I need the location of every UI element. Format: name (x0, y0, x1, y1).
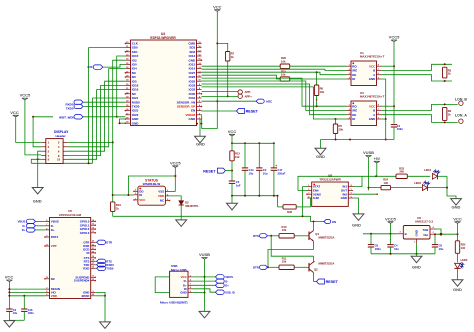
op-amp U1 MAX1487ECSA+T (347, 51, 385, 86)
resistor R19 (111, 202, 115, 212)
node RESET tag q2 (317, 279, 325, 284)
wire Q2 collector to reset (314, 281, 317, 283)
svg-text:GPIO.3: GPIO.3 (80, 231, 90, 235)
svg-text:GND: GND (452, 205, 461, 210)
svg-text:GND: GND (369, 77, 375, 81)
wire L7 DE U3 (202, 84, 347, 115)
svg-text:APP-: APP- (245, 90, 252, 94)
svg-text:10k: 10k (339, 128, 344, 132)
svg-text:VBUS: VBUS (51, 220, 59, 224)
svg-text:RST#: RST# (51, 235, 59, 239)
wire IO2 col to R19 (113, 60, 126, 202)
connector DISPLAY Header (41, 130, 69, 163)
svg-text:1k: 1k (231, 55, 234, 59)
capacitor C14 (244, 143, 246, 168)
svg-text:LED4: LED4 (424, 168, 431, 172)
node D- tag usb (215, 279, 224, 283)
wire VIO (9, 291, 45, 293)
svg-text:MAX1487ECSA+T: MAX1487ECSA+T (360, 54, 385, 58)
svg-text:D2: D2 (185, 200, 189, 204)
svg-text:10u: 10u (394, 247, 399, 251)
wire GND U8 (353, 198, 359, 214)
LED LED4 (407, 175, 430, 177)
svg-text:VCC: VCC (5, 275, 14, 280)
wire IN2 (353, 193, 377, 195)
svg-text:GND: GND (414, 230, 418, 236)
wire DTR to R11 (268, 266, 280, 268)
diode D2 (179, 201, 184, 205)
op-amp STATUS WS2812B-W (134, 179, 170, 206)
wire RTS to R10 (268, 235, 280, 237)
node USB_ID tag (215, 290, 224, 294)
capacitor C8 (370, 234, 372, 245)
resistor R22 (455, 241, 459, 254)
wire R19 bottom to ON tag (113, 216, 324, 221)
wire U4 left GND loop (120, 119, 126, 123)
node DTR tag cp (95, 241, 97, 243)
wire U1 B (381, 64, 452, 70)
svg-text:ADC: ADC (266, 100, 273, 104)
wire usb vcc (193, 276, 216, 278)
svg-text:DTR: DTR (253, 266, 260, 270)
svg-text:10k: 10k (235, 155, 240, 159)
svg-text:WS2812B-W: WS2812B-W (143, 182, 161, 186)
capacitor C17 (273, 143, 275, 168)
svg-text:10u: 10u (13, 311, 18, 315)
wire header pin5 to gnd (38, 151, 42, 187)
svg-text:10k: 10k (281, 73, 286, 77)
svg-text:ESP32-WROVER: ESP32-WROVER (150, 36, 176, 40)
wire Q1 emitter cross (268, 250, 314, 268)
svg-text:10k: 10k (281, 60, 286, 64)
svg-text:Header: Header (56, 134, 67, 138)
svg-text:VCC: VCC (453, 216, 462, 221)
svg-text:GND: GND (352, 223, 361, 228)
wire usb dp (193, 284, 216, 286)
wire gnd rail right (321, 139, 395, 141)
wire L6 /RE U3 (202, 81, 347, 110)
svg-text:1k: 1k (116, 207, 119, 211)
resistor R5 (335, 119, 337, 124)
transistor Q1 (308, 232, 310, 241)
wire U3 GND (381, 118, 386, 120)
node ON tag (324, 219, 331, 223)
wire STAT drop (303, 187, 308, 217)
svg-text:LED2: LED2 (414, 181, 421, 185)
wire ams gnd (416, 243, 418, 256)
svg-text:SM4007PL: SM4007PL (185, 204, 199, 208)
svg-text:RESET: RESET (246, 110, 259, 114)
ground usb (199, 311, 210, 318)
wire IO18 to header pin8 (68, 85, 126, 155)
svg-text:ON: ON (332, 220, 336, 224)
resistor R12 (231, 143, 233, 151)
svg-text:APP+: APP+ (245, 95, 253, 99)
svg-text:MAX1487ECSA+T: MAX1487ECSA+T (360, 94, 385, 98)
svg-text:TXD0: TXD0 (66, 107, 74, 111)
svg-text:VBUS: VBUS (18, 220, 26, 224)
wire ams in rail (363, 233, 397, 235)
wire cp GND right (95, 292, 105, 322)
wire U3 VCC (381, 105, 394, 107)
op-amp U5 CP2104-F03-GM (45, 209, 95, 298)
transistor Q2 (308, 263, 310, 272)
svg-text:Micro USB-B(SMT): Micro USB-B(SMT) (160, 301, 188, 305)
svg-text:D+: D+ (225, 284, 229, 288)
svg-text:MMBT2222A: MMBT2222A (319, 261, 335, 265)
svg-text:C17: C17 (278, 168, 283, 172)
capacitor C6 (434, 234, 436, 244)
svg-text:VUSB: VUSB (199, 252, 210, 257)
svg-text:EPAD: EPAD (82, 294, 90, 298)
resistor R23 (396, 174, 407, 178)
wire pin2 branch (68, 141, 113, 143)
svg-text:GND: GND (189, 117, 197, 121)
resistor R10 (279, 234, 294, 238)
capacitor C5 body (229, 180, 235, 182)
svg-text:C2: C2 (263, 168, 267, 172)
unconnected cp pins (44, 236, 46, 238)
svg-text:R7: R7 (231, 52, 235, 56)
svg-text:DI: DI (139, 193, 142, 197)
svg-text:GND: GND (453, 287, 462, 292)
svg-text:GND: GND (132, 121, 140, 125)
svg-text:1k: 1k (448, 72, 451, 76)
wire IO15 to WDT line (117, 56, 126, 117)
LED LED3 (455, 263, 461, 268)
svg-text:VCC: VCC (10, 110, 19, 115)
wire IO5 to header pin6 (68, 81, 126, 151)
svg-text:VCC5: VCC5 (170, 160, 181, 165)
svg-text:100n: 100n (375, 247, 381, 251)
wire vcc rail mid (232, 142, 274, 144)
svg-text:LED3: LED3 (461, 258, 468, 262)
capacitor C5 (231, 171, 233, 181)
node APP- pin (202, 91, 238, 93)
wire SD0 to bundle (89, 48, 126, 164)
ground rail right (320, 140, 322, 149)
svg-text:1k: 1k (448, 112, 451, 116)
svg-text:RESET: RESET (326, 280, 339, 284)
svg-text:10u: 10u (439, 247, 444, 251)
node RTS tag cp (95, 260, 97, 262)
svg-text:D+: D+ (51, 228, 55, 232)
svg-text:R26: R26 (287, 210, 292, 214)
wire usb id (193, 289, 216, 292)
op-amp U4 ESP32-WROVER module (125, 32, 201, 125)
wire U1 GND drop (381, 79, 386, 140)
svg-text:VCC: VCC (228, 129, 237, 134)
svg-text:VPP: VPP (51, 244, 57, 248)
wire ams gnd rail (371, 253, 435, 255)
resistor R24 (381, 185, 391, 189)
op-amp U6 AMS1117-3.3 (397, 216, 437, 244)
svg-text:+: + (275, 164, 277, 168)
ground D2 (176, 220, 187, 227)
wire U3 B (381, 104, 458, 110)
resistor R11 (279, 265, 294, 269)
svg-text:10k: 10k (282, 228, 287, 232)
svg-text:Q2: Q2 (314, 267, 318, 271)
node VBUS tag usb (215, 275, 224, 279)
wire EPAD (95, 295, 105, 297)
svg-text:+5V: +5V (374, 157, 381, 161)
svg-text:VSS: VSS (158, 190, 164, 194)
wire usb gnd (193, 292, 205, 294)
svg-text:VCC5: VCC5 (385, 216, 396, 221)
svg-text:VCC: VCC (139, 198, 146, 202)
resistor R7 (217, 43, 227, 51)
capacitor C2 (258, 143, 260, 168)
svg-text:100n: 100n (28, 311, 34, 315)
svg-text:C14: C14 (249, 168, 254, 172)
wire L1 RO U1 (202, 65, 281, 67)
wire gnd rail mid (232, 195, 278, 197)
wire sensor junction (216, 100, 218, 102)
svg-text:GND: GND (316, 154, 325, 159)
LED LED2 (391, 187, 423, 189)
svg-text:10k: 10k (320, 90, 325, 94)
svg-text:In: In (405, 232, 408, 236)
svg-text:TXD0: TXD0 (106, 267, 114, 271)
capacitor C16 (23, 296, 25, 309)
ground ams (411, 256, 422, 263)
svg-text:C4: C4 (394, 244, 398, 248)
ground leds (451, 199, 462, 206)
resistor R6 (316, 72, 318, 85)
svg-text:R12: R12 (235, 151, 240, 155)
svg-text:GND: GND (341, 196, 347, 200)
svg-text:C5: C5 (236, 180, 240, 184)
svg-text:GND: GND (33, 199, 42, 204)
wire L4 DI U1 (202, 75, 281, 79)
wire VDD (9, 295, 45, 297)
svg-text:ILIM: ILIM (313, 196, 319, 200)
wire U3 A (381, 115, 458, 123)
svg-text:VDD: VDD (51, 294, 57, 298)
resistor R21 (280, 77, 290, 81)
svg-text:100n: 100n (397, 127, 403, 131)
wire pin9 link (31, 159, 41, 163)
wire usb dm (193, 280, 216, 282)
svg-text:RI: RI (86, 251, 89, 255)
unconnected pin markers U4 (125, 43, 203, 124)
wire EN# long (298, 176, 376, 190)
wire L8 DI U3 (202, 87, 347, 119)
resistor R2 (443, 107, 447, 120)
ground under header (32, 188, 43, 195)
svg-text:130: 130 (461, 246, 466, 250)
svg-text:130: 130 (383, 181, 388, 185)
svg-text:10u: 10u (263, 171, 268, 175)
svg-text:1uF: 1uF (236, 184, 241, 188)
svg-text:10k: 10k (282, 260, 287, 264)
svg-text:GND: GND (412, 264, 421, 269)
ground cp right (100, 322, 111, 329)
svg-text:C6: C6 (439, 244, 443, 248)
svg-text:C8: C8 (375, 244, 379, 248)
wire VSS link (170, 191, 176, 193)
svg-text:WDT_WDI: WDT_WDI (59, 115, 73, 119)
svg-text:DI: DI (352, 117, 355, 121)
svg-text:VCC: VCC (213, 4, 222, 9)
svg-text:TPS2113APWR: TPS2113APWR (319, 177, 341, 181)
wire L5 RO U3 (202, 78, 347, 106)
wire L3 DE U1 (202, 72, 347, 75)
svg-text:SUSPEND#: SUSPEND# (74, 279, 90, 283)
svg-text:GND: GND (180, 291, 186, 295)
wire sensor loop (202, 101, 218, 128)
wire IN1 to led line (353, 176, 362, 186)
wire U1 VCC (381, 65, 394, 67)
wire led4 line (376, 175, 396, 177)
svg-text:300: 300 (399, 170, 404, 174)
ground U8 (353, 214, 364, 221)
wire GND pin drop (199, 119, 201, 136)
svg-text:GND: GND (369, 117, 375, 121)
ground under U4 (195, 136, 206, 143)
svg-text:AMS1117-3.3: AMS1117-3.3 (415, 220, 434, 224)
svg-text:VCC5: VCC5 (20, 93, 31, 98)
capacitor C4 (390, 234, 392, 245)
svg-text:VUSB: VUSB (363, 150, 374, 155)
node ADC tag (202, 100, 257, 102)
wire IO4 to header pin4 (68, 69, 126, 147)
wire cp gnd rail (9, 319, 24, 321)
wire status loop (128, 176, 175, 195)
ground mid (231, 196, 233, 204)
svg-text:DI: DI (352, 77, 355, 81)
wire U1 A (381, 75, 452, 81)
svg-text:RTS: RTS (253, 234, 259, 238)
svg-text:VCC5: VCC5 (389, 35, 400, 40)
svg-text:USB_ID: USB_ID (225, 291, 235, 295)
svg-text:R19: R19 (116, 203, 121, 207)
svg-text:GND: GND (196, 142, 205, 147)
svg-text:CP2104-F03-GM: CP2104-F03-GM (59, 213, 82, 217)
capacitor C1 (391, 124, 397, 126)
wire usb shield (155, 277, 169, 293)
svg-text:DTR: DTR (106, 241, 112, 245)
wire ILIM R26 (310, 198, 312, 207)
wire IO21 down (93, 98, 126, 163)
svg-text:RXD: RXD (83, 266, 89, 270)
svg-text:IO0: IO0 (88, 65, 93, 69)
wire led2 line (369, 187, 382, 189)
wire REGIN (9, 288, 45, 290)
svg-text:Q1: Q1 (315, 232, 319, 236)
resistor R20 (280, 64, 290, 68)
capacitor C3 (6, 308, 12, 310)
svg-text:D+: D+ (22, 228, 26, 232)
ground led3 (452, 280, 463, 287)
wire WDTcol to header pin3 (33, 117, 41, 147)
node RESET tag right of EN (202, 110, 237, 112)
wire led gnd (447, 176, 456, 198)
wire OUT (437, 233, 458, 235)
unconnected status pins (133, 191, 135, 193)
node D+ tag usb (215, 283, 224, 287)
node RXD0 tag cp (95, 264, 97, 266)
svg-text:VDD: VDD (158, 194, 164, 198)
wire IO19 to header pin10 (68, 90, 126, 160)
wire R19 to status DI (113, 194, 129, 196)
wire L2 /RE U1 (202, 69, 347, 70)
resistor R3 (443, 67, 447, 78)
op-amp U8 TPS2113APWR (307, 174, 353, 207)
svg-text:220uF: 220uF (278, 171, 286, 175)
node TXD0 tag cp (95, 267, 97, 269)
svg-text:RESET: RESET (203, 170, 216, 174)
wire TAB bend (437, 229, 442, 234)
resistor R26 (277, 196, 279, 207)
connector USB Micro USB (170, 264, 193, 297)
wire VDD to D2 (170, 196, 182, 201)
ground cp left (4, 321, 15, 328)
op-amp U3 MAX1487ECSA+T (347, 91, 385, 126)
svg-text:MMBT2222A: MMBT2222A (319, 236, 335, 240)
wire Q2 emitter cross (271, 236, 313, 256)
node APP+ pin (202, 95, 238, 97)
wire below header (31, 162, 92, 164)
svg-text:10: 10 (57, 158, 61, 162)
svg-text:10u: 10u (249, 171, 254, 175)
svg-text:TAB: TAB (423, 228, 429, 232)
svg-text:Out: Out (423, 233, 428, 237)
svg-text:LON_A: LON_A (455, 114, 467, 118)
